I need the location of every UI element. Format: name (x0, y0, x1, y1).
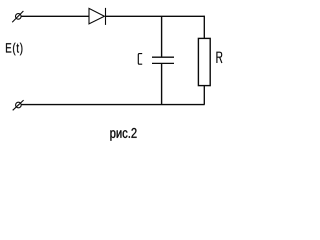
source terminal (top) (12, 11, 23, 22)
wire: top right (diode cathode to top-right corner) (106, 15, 205, 17)
wire: top left (terminal to diode anode) (21, 15, 89, 17)
source terminal (bottom) (13, 100, 24, 110)
label R (217, 52, 222, 63)
wire: capacitor top lead (junction on top wire down to top plate) (161, 16, 163, 57)
label E(t) (6, 43, 22, 56)
wire: bottom (bottom-right corner to bottom terminal) (21, 104, 204, 106)
label C (138, 54, 142, 65)
wire: right vertical (corner down to resistor top) (203, 16, 205, 39)
resistor R (body) (198, 38, 210, 85)
wire: capacitor bottom lead (bottom plate down to bottom wire) (161, 63, 163, 104)
diode (89, 8, 106, 25)
capacitor C (plates) (152, 57, 174, 63)
wire: resistor bottom lead to bottom-right corner (203, 86, 205, 105)
caption рис.2 (110, 128, 136, 141)
